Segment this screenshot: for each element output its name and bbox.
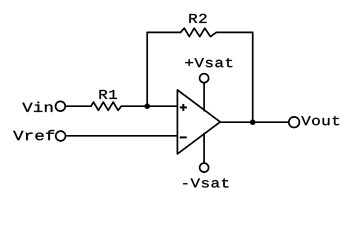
terminal +Vsat [200,74,209,83]
wire output to Vout [220,121,289,123]
resistor R1 [91,102,121,110]
op-amp U1 triangle [177,90,220,154]
wire Vin to R1 [66,105,92,107]
label R1 [100,90,118,99]
wire feedback top left [147,31,180,33]
op-amp minus mark [180,136,187,138]
terminal Vin [56,101,66,111]
label R2 [189,14,206,23]
wire +Vsat supply [203,83,205,110]
node junction non-inverting input [144,103,150,109]
wire R1 to non-inverting input [121,105,177,107]
op-amp plus mark [180,106,187,108]
label -Vsat [183,178,228,187]
wire Vref to inverting input [66,135,178,137]
resistor R2 [181,28,217,36]
terminal Vout [289,117,300,128]
terminal Vref [56,131,66,141]
label Vout [301,116,339,125]
node junction output [250,119,256,125]
label +Vsat [185,58,232,67]
label Vref [13,130,54,140]
terminal -Vsat [200,163,209,172]
wire -Vsat supply [203,134,205,163]
wire feedback left vertical [146,32,148,106]
label Vin [22,102,52,112]
wire feedback top right [216,31,252,33]
wire feedback right vertical [252,32,254,122]
